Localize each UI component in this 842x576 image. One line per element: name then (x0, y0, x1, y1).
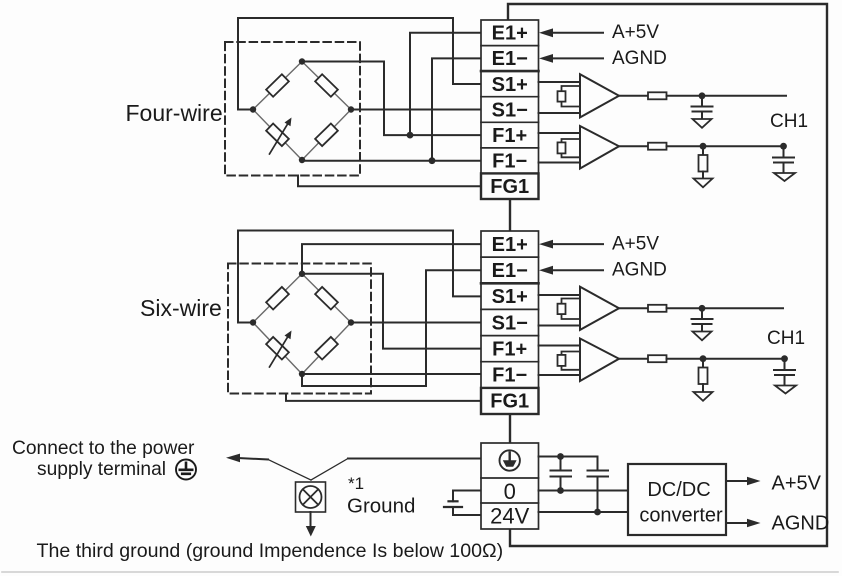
svg-text:F1−: F1− (492, 365, 527, 387)
svg-text:F1−: F1− (492, 151, 527, 173)
wire ground terminal to filter caps (539, 456, 598, 458)
bridge2 right node (348, 319, 354, 325)
svg-text:E1+: E1+ (492, 234, 528, 256)
resistor R12 (648, 305, 667, 312)
wire amp1 output (619, 95, 648, 97)
wire: bridge1 left node to S1+ terminal (238, 18, 481, 110)
svg-text:FG1: FG1 (490, 176, 529, 198)
wire after R5 to line end (667, 95, 787, 97)
wire: power terminal to external ground V (348, 458, 481, 460)
op-amp U2 (580, 126, 619, 169)
wire after R13 to CH1 cap (667, 358, 785, 360)
svg-text:0: 0 (504, 479, 516, 504)
svg-text:S1+: S1+ (492, 74, 528, 96)
junction node CH1 (780, 143, 787, 150)
arrow AGND into E1- (550, 57, 603, 59)
bottom terminal block (481, 443, 539, 529)
op-amp U4 (580, 339, 619, 382)
wire: bridge2 top node to F1+ terminal (302, 274, 481, 349)
input capacitor bracket amp4 (562, 352, 581, 370)
wire F1+ to amp2 (539, 132, 581, 134)
junction node (699, 92, 706, 99)
svg-text:E1−: E1− (492, 48, 528, 70)
junction node (557, 487, 564, 494)
resistor R6 (648, 143, 667, 150)
input capacitor bracket amp1 (562, 86, 581, 107)
ground terminal symbol in circle (500, 450, 520, 470)
bridge2 arm top-right (302, 274, 351, 323)
junction node on F1- wire (429, 157, 436, 164)
protective earth glyph in circle (176, 460, 196, 480)
input capacitor bracket amp3 (562, 299, 581, 320)
junction node on F1+ wire (407, 132, 414, 139)
arrow down to third ground (310, 512, 312, 527)
junction node (699, 305, 706, 312)
bridge1 bottom node (299, 157, 305, 163)
wire: bridge2 bottom node to F1- terminal (302, 373, 481, 375)
junction node (557, 453, 564, 460)
bridge1 arm top-left (253, 62, 302, 110)
filter capacitor C5 (551, 457, 572, 491)
svg-text:Ground: Ground (347, 495, 415, 518)
resistor R2 top-right arm (315, 74, 338, 97)
wire: bridge2 bottom node to E1- terminal (302, 270, 481, 386)
wire amp2 output (619, 145, 648, 147)
bridge1 arm top-right (302, 62, 351, 110)
svg-text:The third ground (ground Impen: The third ground (ground Impendence Is b… (37, 540, 504, 562)
terminal labels block 1 (490, 23, 529, 199)
bridge2 arm bottom-left (253, 323, 302, 375)
thin V right branch (311, 459, 348, 481)
resistor R10 bottom-left arm (strain gauge) (266, 337, 289, 360)
wire: shield of four-wire cell to FG1 terminal (298, 176, 481, 187)
terminal block 2 (481, 231, 539, 414)
input capacitor bracket amp2 (562, 139, 581, 157)
svg-text:converter: converter (639, 505, 723, 527)
svg-text:*1: *1 (348, 474, 364, 493)
bridge1 arm bottom-right (302, 110, 351, 161)
resistor R4 bottom-right arm (315, 124, 338, 147)
four-wire load cell dashed enclosure (225, 42, 360, 176)
wire S1+ to amp1 (539, 81, 581, 83)
svg-text:F1+: F1+ (492, 125, 527, 147)
wire 24V terminal to DC/DC (539, 511, 629, 513)
bridge1 left node (250, 106, 256, 112)
capacitor C2 to analog ground at CH1 (773, 146, 794, 173)
wire: bridge1 top node to F1+ terminal (302, 62, 481, 136)
wire F1- to amp2 (539, 162, 581, 164)
capacitor C1 to analog ground (692, 96, 713, 119)
svg-text:F1+: F1+ (492, 338, 527, 360)
bridge1 arm bottom-left (253, 110, 302, 161)
svg-text:Six-wire: Six-wire (140, 295, 222, 321)
junction node (700, 355, 707, 362)
op-amp U1 (580, 74, 619, 117)
svg-text:Connect to the power: Connect to the power (12, 438, 195, 459)
capacitor C3 to analog ground (692, 308, 713, 331)
wire amp4 output (619, 358, 648, 360)
thin V left branch (268, 460, 311, 481)
bridge2 arm bottom-right (302, 323, 351, 375)
svg-text:CH1: CH1 (770, 111, 808, 132)
svg-text:24V: 24V (490, 504, 529, 529)
wire F1- to amp4 (539, 374, 581, 376)
wire spine between terminal block 2 and bottom block (509, 414, 511, 443)
svg-text:S1+: S1+ (492, 286, 528, 308)
junction node on 24V wire (594, 509, 601, 516)
svg-text:supply terminal: supply terminal (37, 459, 166, 480)
capacitor C4 to analog ground at CH1 (774, 359, 795, 386)
svg-text:CH1: CH1 (767, 328, 805, 349)
arrow DC/DC output AGND (726, 522, 750, 524)
resistor R1 top-left arm (266, 74, 289, 97)
arrow A+5V into E1+ block2 (550, 243, 603, 245)
six-wire load cell dashed enclosure (228, 264, 371, 394)
svg-text:S1−: S1− (492, 312, 528, 334)
wire after R6 to CH1 cap (667, 145, 784, 147)
faint scan line at page bottom (2, 571, 838, 573)
junction node (700, 143, 707, 150)
bridge2 left node (250, 319, 256, 325)
svg-text:DC/DC: DC/DC (647, 479, 710, 501)
op-amp U3 (580, 287, 619, 330)
bridge1 top node (299, 58, 305, 64)
terminal labels block 2 (490, 234, 529, 413)
filter capacitor C6 (588, 457, 609, 513)
bridge1 right node (348, 106, 354, 112)
svg-text:A+5V: A+5V (772, 473, 822, 495)
arrow to power supply terminal (239, 458, 268, 460)
svg-text:Four-wire: Four-wire (126, 100, 223, 126)
resistor R13 (648, 355, 667, 362)
DC/DC converter box (628, 464, 726, 535)
resistor R11 bottom-right arm (315, 337, 338, 360)
resistor R7 to analog ground (702, 146, 704, 155)
wire: bridge2 right node to S1- terminal (351, 322, 481, 324)
wire: bridge1 right node to S1- terminal (351, 109, 481, 111)
wire: bridge1 bottom node to F1- terminal (302, 159, 481, 162)
ground electrode box (circle-X) (296, 482, 326, 512)
wire after R12 to line end (667, 307, 784, 309)
wire: bridge2 left node to S1+ terminal (238, 231, 481, 323)
resistor R9 top-right arm (315, 287, 338, 310)
battery 24V external supply (453, 491, 481, 502)
variable arrow across strain gauge R10 (270, 336, 289, 368)
wire amp3 output (619, 307, 648, 309)
wire: E1- terminal branch down to F1- wire (432, 58, 481, 160)
wire: E1+ terminal branch down to F1+ wire (410, 33, 481, 135)
svg-text:FG1: FG1 (490, 391, 529, 413)
bridge2 arm top-left (253, 274, 302, 323)
wire spine between terminal block 1 and block 2 (509, 199, 511, 231)
svg-text:A+5V: A+5V (612, 233, 659, 254)
arrow AGND into E1- block2 (550, 269, 603, 271)
wire S1- to amp3 (539, 325, 581, 327)
junction node CH1 (781, 355, 788, 362)
wire S1+ to amp3 (539, 294, 581, 296)
arrow A+5V into E1+ (550, 32, 603, 34)
wire: shield of six-wire cell to FG1 terminal (286, 394, 481, 401)
wire 0 terminal to DC/DC (539, 490, 629, 492)
resistor R14 to analog ground (702, 359, 704, 368)
svg-text:E1−: E1− (492, 260, 528, 282)
module outer frame (508, 4, 827, 546)
svg-text:S1−: S1− (492, 99, 528, 121)
bridge2 top node (299, 271, 305, 277)
svg-text:A+5V: A+5V (612, 22, 659, 43)
resistor R5 (648, 92, 667, 99)
resistor R3 bottom-left arm (strain gauge) (266, 124, 289, 147)
resistor R8 top-left arm (266, 287, 289, 310)
svg-text:E1+: E1+ (492, 23, 528, 45)
svg-text:AGND: AGND (612, 48, 667, 69)
svg-text:AGND: AGND (612, 259, 667, 280)
wire S1- to amp1 (539, 112, 581, 114)
bridge2 bottom node (299, 371, 305, 377)
arrow DC/DC output A+5V (726, 480, 750, 482)
wire: bridge2 top node to E1+ terminal (302, 244, 481, 274)
svg-text:AGND: AGND (772, 513, 830, 535)
terminal block 1 (481, 20, 539, 199)
wire F1+ to amp4 (539, 345, 581, 347)
variable arrow across strain gauge R3 (270, 123, 289, 155)
